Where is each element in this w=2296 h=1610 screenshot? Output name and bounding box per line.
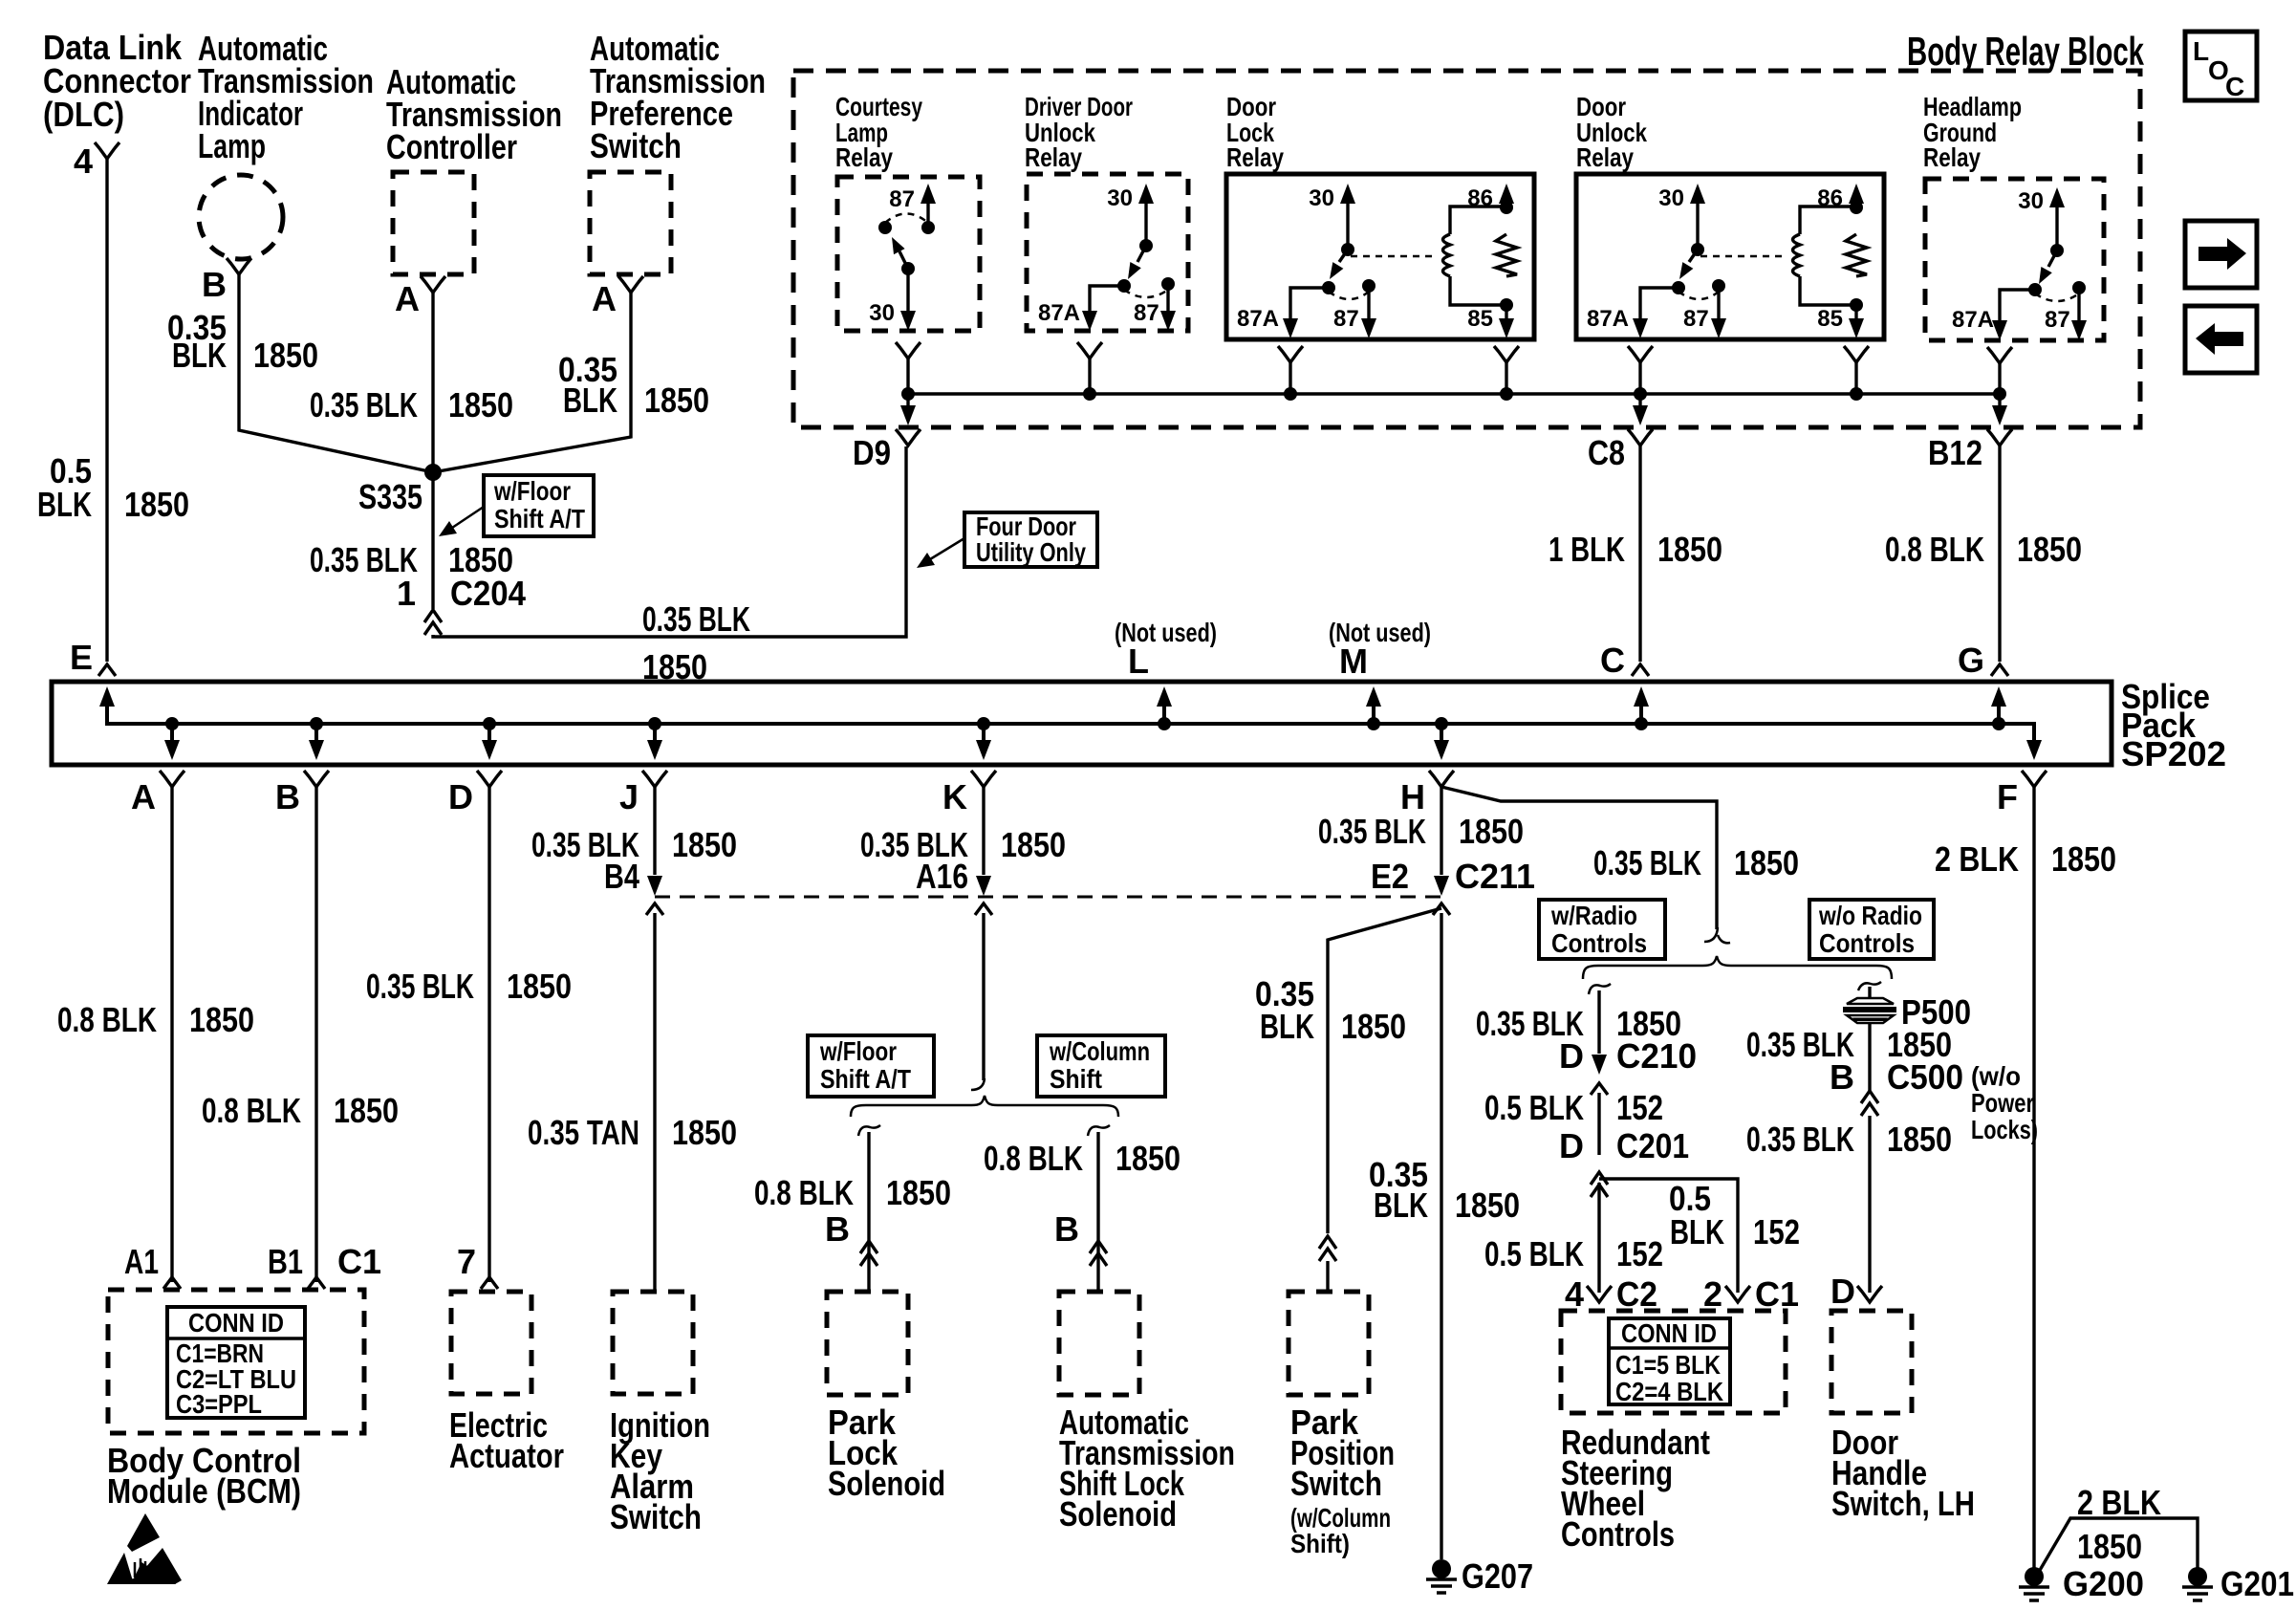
Courtesy Lamp Relay pin 87 [889, 184, 936, 234]
connector D C210 [1559, 1036, 1697, 1095]
svg-text:Body Relay Block: Body Relay Block [1907, 29, 2144, 74]
Door Lock Relay armature dashed link to coil [1351, 255, 1436, 258]
wire P500 to C500, 0.35 BLK 1850 [1868, 1023, 1871, 1091]
svg-text:D: D [448, 777, 473, 816]
wire Door Lock Relay 85 to bus [1494, 346, 1519, 401]
svg-text:w/Column: w/Column [1049, 1036, 1150, 1066]
svg-text:D: D [1559, 1126, 1584, 1165]
svg-text:G207: G207 [1462, 1556, 1533, 1596]
Door Lock Relay pin 30 [1309, 184, 1355, 256]
relay: Door Unlock Relay label [1576, 92, 1647, 172]
svg-text:1850: 1850 [886, 1173, 951, 1212]
Driver Door Unlock Relay switch arm [1128, 246, 1146, 279]
connector A16 (C211 pass-through) [916, 857, 992, 915]
wire Door Unlock Relay 85 to bus [1844, 346, 1869, 401]
svg-text:B: B [275, 777, 300, 816]
wire E2 to park position switch branch, 0.35 BLK 1850 [1328, 908, 1441, 1233]
svg-text:B12: B12 [1928, 433, 1982, 472]
DLC pin 4 [74, 141, 119, 181]
svg-text:BLK: BLK [1670, 1212, 1724, 1251]
splice terminal G (entry) [1991, 686, 2006, 730]
wire C204 to D9 along bottom, 0.35 BLK 1850 [433, 446, 906, 637]
svg-text:(DLC): (DLC) [43, 95, 124, 134]
svg-text:30: 30 [1309, 185, 1334, 211]
A/T Shift Lock Solenoid pin B [1054, 1209, 1107, 1266]
splice terminal L (not used) [1115, 618, 1217, 730]
wire E2 to ground G207, 0.35 BLK 1850 [1440, 913, 1442, 1559]
svg-text:7: 7 [457, 1242, 476, 1281]
splice terminal F (exit) [1997, 724, 2047, 816]
svg-text:C: C [2225, 72, 2244, 101]
Headlamp Ground Relay pin 87A [1952, 283, 2042, 340]
relay: Headlamp Ground Relay label [1923, 92, 2022, 172]
annotation box w/o Radio Controls [1809, 900, 1934, 959]
Door Lock Relay pin 87A [1237, 281, 1335, 338]
annotation box w/Radio Controls [1539, 900, 1665, 959]
svg-text:w/Floor: w/Floor [819, 1036, 897, 1066]
svg-text:0.8 BLK: 0.8 BLK [57, 1000, 157, 1039]
svg-text:E2: E2 [1371, 857, 1409, 896]
splice terminal K (exit) [942, 717, 996, 816]
svg-text:Switch, LH: Switch, LH [1831, 1484, 1975, 1523]
svg-text:87A: 87A [1237, 306, 1279, 332]
Door Lock Relay pin 85 [1467, 298, 1514, 338]
Park Lock Solenoid pin B [825, 1209, 877, 1266]
connector C211 dashed line [655, 896, 1441, 899]
svg-text:1850: 1850 [672, 1113, 737, 1152]
svg-text:152: 152 [1616, 1088, 1663, 1127]
Door Unlock Relay resistor [1846, 234, 1867, 276]
annotation box w/Column Shift [1037, 1035, 1165, 1097]
wire to Park Lock Solenoid B, 0.8 BLK 1850 [867, 1132, 870, 1292]
svg-text:CONN ID: CONN ID [1621, 1318, 1717, 1348]
svg-text:B4: B4 [604, 857, 639, 896]
Headlamp Ground Relay box (dashed) [1925, 179, 2104, 340]
svg-text:Utility Only: Utility Only [976, 537, 1086, 567]
Body Relay Block outline (dashed) [793, 71, 2140, 427]
svg-text:L: L [1128, 642, 1149, 681]
splice terminal A (exit) [131, 717, 184, 816]
relay: Driver Door Unlock Relay label [1025, 92, 1133, 172]
svg-text:Relay: Relay [1025, 142, 1082, 172]
svg-text:Shift: Shift [1050, 1064, 1102, 1094]
wire Headlamp Ground relay 87A to bus [1987, 347, 2012, 401]
ground G207 [1426, 1556, 1533, 1596]
svg-text:0.8 BLK: 0.8 BLK [984, 1139, 1083, 1178]
svg-text:0.8 BLK: 0.8 BLK [202, 1091, 301, 1130]
wire end hook above brace [1704, 927, 1730, 943]
Door Unlock Relay pin 87 [1679, 279, 1726, 338]
wire C201 to Redundant Steering Wheel Controls pin 4 C2, 0.5 BLK 152 [1597, 1183, 1600, 1293]
wire B12 exit from relay block, 0.8 BLK 1850 [1928, 394, 2012, 472]
svg-text:A: A [395, 279, 420, 318]
Park Position Switch label [1290, 1403, 1395, 1558]
svg-text:C201: C201 [1616, 1126, 1689, 1165]
svg-text:Shift A/T: Shift A/T [820, 1064, 911, 1094]
svg-text:Solenoid: Solenoid [1059, 1494, 1177, 1534]
svg-text:1850: 1850 [672, 825, 737, 864]
svg-text:30: 30 [2018, 188, 2044, 214]
svg-text:D9: D9 [853, 433, 891, 472]
icon: arrow right box [2185, 221, 2257, 288]
connector B4 (C211 pass-through) [604, 857, 663, 915]
Courtesy Lamp Relay contact arc [878, 214, 928, 235]
ground G200 [2019, 1564, 2144, 1603]
svg-text:A16: A16 [916, 857, 968, 896]
svg-text:C1=5 BLK: C1=5 BLK [1615, 1350, 1721, 1380]
svg-text:L: L [2193, 36, 2209, 66]
svg-text:1850: 1850 [448, 385, 513, 424]
module: Park Lock Solenoid box (dashed) [827, 1292, 908, 1395]
Electric Actuator label [449, 1405, 564, 1475]
wire to C210, 0.35 BLK 1850 [1597, 990, 1600, 1054]
svg-text:Relay: Relay [1576, 142, 1634, 172]
Door Lock Relay resistor [1496, 234, 1517, 276]
icon: LOC reference box [2185, 32, 2257, 101]
Driver Door Unlock Relay pin 87A [1038, 279, 1131, 331]
wire DLC pin4 to splice E, 0.5 BLK 1850 [105, 159, 108, 662]
svg-text:Shift A/T: Shift A/T [494, 504, 585, 533]
svg-text:0.35 BLK: 0.35 BLK [642, 599, 750, 639]
wire park lock branch hook [858, 1125, 880, 1136]
svg-text:0.35 BLK: 0.35 BLK [1318, 812, 1426, 851]
svg-text:B: B [825, 1209, 850, 1249]
svg-text:0.35 BLK: 0.35 BLK [310, 385, 418, 424]
svg-text:1850: 1850 [253, 336, 318, 375]
svg-text:86: 86 [1467, 185, 1493, 211]
svg-text:0.5 BLK: 0.5 BLK [1484, 1234, 1584, 1273]
svg-text:C8: C8 [1588, 433, 1625, 472]
Courtesy Lamp Relay pin 30 [869, 269, 916, 331]
Redundant Steering Wheel Controls label [1561, 1423, 1710, 1554]
svg-text:C211: C211 [1455, 857, 1535, 896]
svg-text:G200: G200 [2063, 1564, 2144, 1603]
svg-text:2 BLK: 2 BLK [1935, 839, 2019, 879]
svg-text:87A: 87A [1587, 306, 1629, 332]
preference switch pin A [592, 276, 643, 318]
Electric Actuator pin 7 [457, 1242, 498, 1289]
svg-text:Relay: Relay [835, 142, 893, 172]
annotation (w/o Power Locks) [1971, 1061, 2038, 1144]
wire D9 exit from relay block [853, 394, 921, 472]
svg-text:SP202: SP202 [2121, 734, 2226, 773]
svg-text:Solenoid: Solenoid [828, 1464, 945, 1503]
wire steering wheel branch hook [1589, 984, 1611, 994]
connector E2 C211 [1371, 857, 1535, 915]
connector B C500 [1830, 1057, 1963, 1116]
svg-text:A: A [592, 279, 617, 318]
controller: Automatic Transmission Controller label [386, 62, 562, 166]
svg-text:D: D [1830, 1272, 1855, 1311]
svg-text:4: 4 [74, 141, 93, 181]
splice terminal J (exit) [619, 717, 667, 816]
svg-text:1850: 1850 [189, 1000, 254, 1039]
svg-text:85: 85 [1467, 306, 1493, 332]
svg-text:30: 30 [869, 300, 895, 326]
svg-text:30: 30 [1107, 185, 1133, 211]
svg-text:87: 87 [1683, 306, 1709, 332]
svg-text:4: 4 [1565, 1274, 1584, 1314]
wire splice F to ground G200, 2 BLK 1850 [2032, 787, 2035, 1570]
module: Electric Actuator box (dashed) [451, 1292, 531, 1394]
Door Unlock Relay pin 86 [1817, 184, 1864, 214]
splice terminal H (exit) [1400, 717, 1454, 816]
svg-text:CONN ID: CONN ID [188, 1308, 284, 1338]
svg-text:C210: C210 [1616, 1036, 1697, 1076]
svg-text:87: 87 [1134, 300, 1159, 326]
svg-text:Switch: Switch [1290, 1464, 1382, 1503]
svg-text:H: H [1400, 777, 1425, 816]
preference switch: Automatic Transmission Preference Switch label [590, 29, 766, 165]
Redundant Steering Wheel Controls pin 2 C1 [1703, 1274, 1799, 1314]
svg-text:30: 30 [1658, 185, 1684, 211]
svg-text:C2=4 BLK: C2=4 BLK [1615, 1377, 1723, 1406]
svg-text:Controls: Controls [1561, 1514, 1675, 1554]
svg-text:1850: 1850 [2051, 839, 2116, 879]
splice terminal M (not used) [1329, 618, 1431, 730]
svg-text:C: C [1600, 641, 1625, 680]
Park Position Switch connector [1319, 1236, 1336, 1261]
relay: Door Lock Relay label [1226, 92, 1284, 172]
module: Body Control Module (BCM) box (dashed) [108, 1290, 364, 1433]
Headlamp Ground Relay switch arm [2039, 250, 2057, 284]
Ignition Key Alarm Switch label [610, 1405, 710, 1536]
svg-text:Power: Power [1971, 1088, 2034, 1118]
wire to A/T Shift Lock Solenoid B, 0.8 BLK 1850 [1096, 1132, 1099, 1292]
wire Door Lock Relay 87A to bus [1278, 346, 1303, 401]
connector DLC: Data Link Connector label [43, 28, 191, 134]
body relay block internal ground bus [908, 392, 2000, 395]
svg-text:87: 87 [2045, 307, 2070, 333]
svg-text:0.5 BLK: 0.5 BLK [1484, 1088, 1584, 1127]
svg-text:1850: 1850 [2077, 1527, 2142, 1566]
Splice Pack SP202 box [52, 682, 2112, 765]
svg-text:G: G [1958, 641, 1984, 680]
splice terminal B (exit) [275, 717, 329, 816]
relay: Door Lock Relay box (solid) [1226, 174, 1534, 339]
BCM pins B1 C1 [268, 1242, 381, 1289]
Headlamp Ground Relay pin 30 [2018, 187, 2065, 257]
Door Lock Relay coil [1443, 207, 1507, 305]
lamp symbol (dashed circle) [199, 175, 283, 259]
Driver Door Unlock Relay pin 30 [1107, 184, 1154, 252]
module: Redundant Steering Wheel Controls box (dashed) [1561, 1311, 1786, 1413]
Door Unlock Relay coil [1793, 207, 1857, 305]
svg-text:Relay: Relay [1923, 142, 1981, 172]
svg-text:1850: 1850 [1341, 1007, 1406, 1046]
svg-text:Lamp: Lamp [198, 126, 266, 165]
wire C500 to Door Handle Switch D, 0.35 BLK 1850 [1868, 1116, 1871, 1293]
svg-text:87A: 87A [1038, 300, 1080, 326]
svg-text:C1: C1 [337, 1242, 381, 1281]
svg-text:A1: A1 [124, 1242, 159, 1281]
wire splice H down, 0.35 BLK 1850 [1440, 787, 1442, 875]
Park Lock Solenoid label [828, 1403, 945, 1503]
controller box (dashed) [393, 172, 474, 274]
svg-text:1: 1 [397, 574, 416, 613]
wire C8 exit from relay block, 1 BLK 1850 [1588, 394, 1653, 472]
svg-text:Locks): Locks) [1971, 1115, 2038, 1144]
relay: Courtesy Lamp Relay label [835, 92, 922, 172]
svg-text:1850: 1850 [124, 485, 189, 524]
svg-text:M: M [1339, 642, 1368, 681]
wire G200 to G201, 2 BLK 1850 [2039, 1518, 2198, 1572]
svg-text:S335: S335 [358, 477, 422, 516]
Splice Pack SP202 label [2121, 677, 2226, 773]
wire B4 to Ignition Key Alarm Switch, 0.35 TAN 1850 [653, 913, 656, 1292]
svg-text:B: B [1830, 1057, 1854, 1097]
annotation box Four Door Utility Only [964, 511, 1097, 567]
Door Lock Relay switch arm [1330, 250, 1348, 279]
wire controller A to S335, 0.35 BLK 1850 [431, 293, 434, 472]
svg-text:w/o Radio: w/o Radio [1818, 901, 1922, 930]
svg-text:Relay: Relay [1226, 142, 1284, 172]
svg-text:2: 2 [1703, 1274, 1722, 1314]
wire Door Unlock Relay 87A to bus [1628, 346, 1653, 401]
wire splice J down, 0.35 BLK 1850 [653, 787, 656, 875]
svg-text:1850: 1850 [1001, 825, 1066, 864]
BCM CONN ID table [167, 1307, 305, 1419]
svg-text:87A: 87A [1952, 307, 1994, 333]
module: Door Handle Switch LH box (dashed) [1831, 1311, 1912, 1413]
svg-text:1850: 1850 [644, 381, 709, 420]
Body Control Module (BCM) label [107, 1441, 301, 1511]
splice terminal D (exit) [448, 717, 502, 816]
arrow from w/Floor Shift A/T box to wire [439, 507, 484, 536]
wire preference switch A to S335, 0.35 BLK 1850 [433, 293, 631, 472]
svg-text:1850: 1850 [1887, 1120, 1952, 1159]
Door Handle Switch LH label [1831, 1423, 1975, 1523]
relay: Door Unlock Relay box (solid) [1576, 174, 1884, 339]
svg-text:E: E [70, 638, 93, 677]
svg-text:1850: 1850 [1657, 530, 1722, 569]
Driver Door Unlock Relay box (dashed) [1027, 174, 1188, 331]
svg-text:(w/o: (w/o [1971, 1061, 2021, 1091]
svg-text:BLK: BLK [563, 381, 617, 420]
module: Ignition Key Alarm Switch box (dashed) [613, 1292, 693, 1394]
svg-text:0.35 BLK: 0.35 BLK [1593, 843, 1701, 882]
svg-text:0.35 BLK: 0.35 BLK [366, 967, 474, 1006]
BCM pin A1 [124, 1242, 181, 1289]
svg-text:BLK: BLK [172, 336, 227, 375]
svg-text:87: 87 [889, 186, 915, 212]
svg-text:C1: C1 [1755, 1274, 1799, 1314]
svg-text:Controls: Controls [1551, 928, 1647, 958]
controller pin A [395, 276, 445, 318]
wire Driver Door Unlock relay 87A to bus [1077, 342, 1102, 401]
wire splice D to Electric Actuator pin 7, 0.35 BLK 1850 [487, 787, 490, 1282]
svg-text:BLK: BLK [1374, 1186, 1428, 1225]
Door Unlock Relay switch arm [1679, 250, 1698, 279]
Door Unlock Relay armature dashed link to coil [1700, 255, 1786, 258]
Courtesy Lamp Relay switch arm [892, 237, 915, 275]
svg-text:J: J [619, 777, 639, 816]
splice S335 [358, 464, 442, 516]
wire lamp B to S335, 0.35 BLK 1850 [239, 274, 433, 472]
svg-text:B1: B1 [268, 1242, 303, 1281]
arrow from Four Door Utility Only box to wire corner [917, 538, 964, 568]
svg-text:1850: 1850 [1455, 1186, 1520, 1225]
svg-text:B: B [202, 265, 227, 304]
svg-text:0.8 BLK: 0.8 BLK [754, 1173, 854, 1212]
svg-text:2 BLK: 2 BLK [2077, 1483, 2161, 1522]
svg-text:1850: 1850 [334, 1091, 399, 1130]
wire C210 to C201, 0.5 BLK 152 [1597, 1093, 1600, 1155]
wire branch C201 to pin 2 C1, 0.5 BLK 152 [1599, 1179, 1738, 1293]
annotation box w/Floor Shift A/T (lower) [808, 1035, 934, 1097]
Headlamp Ground Relay pin 87 [2035, 281, 2087, 340]
svg-text:D: D [1559, 1036, 1584, 1076]
module: Park Position Switch box (dashed) [1289, 1292, 1369, 1395]
svg-text:1850: 1850 [1459, 812, 1524, 851]
preference switch box (dashed) [590, 172, 671, 274]
svg-text:0.35 BLK: 0.35 BLK [1746, 1120, 1854, 1159]
svg-text:0.8 BLK: 0.8 BLK [1885, 530, 1984, 569]
connector D C201 [1559, 1126, 1689, 1197]
svg-text:C500: C500 [1887, 1057, 1963, 1097]
svg-text:Switch: Switch [610, 1497, 702, 1536]
Door Unlock Relay pin 30 [1658, 184, 1705, 256]
wire splice H branch to radio controls [1441, 787, 1717, 929]
svg-text:w/Floor: w/Floor [493, 476, 571, 506]
svg-text:85: 85 [1817, 306, 1843, 332]
splice terminal C (entry) [1634, 686, 1649, 730]
svg-text:0.35 TAN: 0.35 TAN [528, 1113, 639, 1152]
svg-text:C204: C204 [450, 574, 526, 613]
icon: arrow left box [2185, 306, 2257, 373]
Automatic Transmission Shift Lock Solenoid label [1059, 1403, 1235, 1534]
svg-text:Actuator: Actuator [449, 1436, 564, 1475]
wire A16 down to brace [982, 913, 985, 1080]
svg-text:Controls: Controls [1819, 928, 1915, 958]
splice pack internal bus [107, 694, 2034, 750]
svg-text:87: 87 [1333, 306, 1359, 332]
wire splice K down, 0.35 BLK 1850 [982, 787, 985, 875]
svg-text:1850: 1850 [1116, 1139, 1180, 1178]
svg-text:Controller: Controller [386, 127, 517, 166]
svg-text:BLK: BLK [1260, 1007, 1314, 1046]
svg-text:Switch: Switch [590, 126, 682, 165]
svg-text:C2: C2 [1616, 1274, 1657, 1314]
Door Lock Relay pin 87 [1329, 279, 1376, 338]
svg-text:C3=PPL: C3=PPL [176, 1389, 262, 1419]
Door Unlock Relay pin 87A [1587, 281, 1685, 338]
module: Automatic Transmission Shift Lock Solenoid box (dashed) [1059, 1292, 1139, 1395]
wire end hook at K brace [971, 1078, 985, 1090]
svg-text:F: F [1997, 777, 2018, 816]
svg-text:86: 86 [1817, 185, 1843, 211]
Courtesy Lamp Relay box (dashed) [837, 177, 980, 331]
lamp: Automatic Transmission Indicator Lamp label [198, 29, 374, 165]
wire S335 down, 0.35 BLK 1850 [431, 472, 434, 609]
Driver Door Unlock Relay pin 87 [1124, 277, 1176, 331]
wire splice B to BCM B1/C1, 0.8 BLK 1850 [314, 787, 317, 1282]
Redundant Steering Wheel Controls pin 4 C2 [1565, 1274, 1657, 1314]
Door Handle Switch pin D [1830, 1272, 1882, 1311]
splice terminal E (entry) [70, 638, 116, 707]
svg-text:A: A [131, 777, 156, 816]
svg-text:1 BLK: 1 BLK [1549, 530, 1625, 569]
svg-text:w/Radio: w/Radio [1550, 901, 1637, 930]
Door Lock Relay pin 86 [1467, 184, 1514, 214]
svg-text:Module (BCM): Module (BCM) [107, 1471, 301, 1511]
svg-text:G201: G201 [2220, 1564, 2294, 1603]
wire shift lock branch hook [1088, 1125, 1110, 1136]
svg-text:K: K [942, 777, 967, 816]
connector 1 C204 (in-line) [397, 574, 526, 635]
ESD sensitive symbol [107, 1513, 182, 1584]
svg-text:B: B [1054, 1209, 1079, 1249]
